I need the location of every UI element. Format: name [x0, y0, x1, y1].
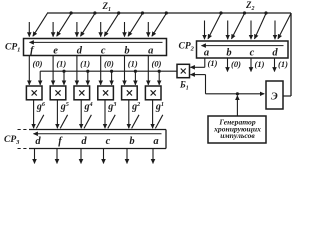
slash mark input CP3 cell 6: [155, 115, 162, 129]
wire Z1 diagonal tap into CP1 cell 5: [128, 11, 144, 36]
label state (1) cell a: [208, 58, 218, 68]
wire CP1 cell 5 output down: [124, 56, 126, 85]
svg-text:b: b: [129, 136, 134, 147]
node timing junction: [236, 92, 239, 95]
wire CP2 cell a output to multiplier B1: [191, 58, 205, 67]
label CP1: [5, 42, 20, 53]
svg-text:d: d: [81, 136, 87, 147]
multiplier B1 box: [177, 64, 190, 77]
slash mark input CP3 cell 5: [132, 115, 139, 129]
label coefficient g2: [131, 101, 140, 113]
multiplier X4 box: [98, 86, 114, 100]
svg-text:d: d: [35, 136, 41, 147]
svg-text:a: a: [204, 48, 209, 59]
wire strobe arrow into CP1 cell 2: [52, 22, 54, 37]
label CP2 cell d: [272, 48, 278, 59]
wire CP3 cell 2 output: [56, 149, 58, 164]
slash mark input CP3 cell 3: [84, 115, 91, 129]
wire element E output: [283, 95, 291, 97]
wire Z2 diagonal tap into CP2 cell 4: [278, 13, 291, 38]
label state (0) cell 1: [33, 58, 43, 68]
label Z1: [102, 1, 112, 13]
label CP1 cell c: [101, 45, 106, 56]
wire CP3 cell 4 output: [103, 149, 105, 164]
label CP2: [179, 41, 195, 52]
label state (1) cell 2: [56, 58, 66, 68]
label CP3 cell d: [81, 136, 87, 147]
wire Z1 diagonal tap into CP1 cell 2: [57, 11, 73, 36]
wire CP3 cell 1 output: [34, 149, 36, 164]
label state (1) cell c: [255, 59, 265, 69]
wire Z2 diagonal tap into CP2 cell 3: [255, 11, 268, 38]
wire CP1 cell 1 output down: [28, 56, 30, 85]
wire strobe arrow into CP2 cell 4: [274, 21, 276, 40]
svg-text:a: a: [148, 45, 153, 56]
label state (0) cell 4: [104, 58, 114, 68]
wire CP1 cell 2 output down: [52, 56, 54, 85]
wire product bus tap 1: [39, 71, 41, 85]
label Z2: [245, 0, 255, 12]
wire timing into multiplier B1: [191, 75, 206, 94]
svg-text:d: d: [272, 48, 278, 59]
generator box: [208, 116, 266, 143]
wire multiplier X2 output into CP3: [56, 100, 58, 128]
multiplier X6 box: [145, 86, 161, 100]
wire multiplier X3 output into CP3: [80, 100, 82, 128]
label coefficient g6: [36, 101, 46, 113]
svg-text:Э: Э: [271, 91, 278, 102]
wire strobe arrow into CP2 cell 2: [227, 21, 229, 40]
wire timing bus to element E: [206, 93, 265, 95]
wire generator output up: [236, 96, 238, 116]
label state (1) cell d: [278, 59, 288, 69]
wire strobe arrow into CP1 cell 3: [76, 22, 78, 37]
wire CP1 cell 4 output down: [100, 56, 102, 85]
wire CP2 cell d output: [274, 58, 276, 72]
label coefficient g1: [155, 101, 164, 113]
slash mark input CP3 cell 2: [60, 115, 67, 129]
wire CP2 cell c output: [250, 58, 252, 72]
register CP3 bottom edge: [29, 148, 166, 150]
wire product bus tap 5: [134, 70, 137, 85]
slash mark input CP3 cell 4: [108, 115, 115, 129]
svg-text:(1): (1): [278, 59, 288, 69]
label CP2 cell b: [226, 48, 231, 59]
wire CP2 cell b output: [227, 58, 229, 72]
svg-text:(1): (1): [128, 58, 138, 68]
svg-text:импульсов: импульсов: [220, 131, 255, 140]
label B1: [179, 79, 189, 91]
wire CP3 cell 6 output: [152, 149, 154, 164]
wire strobe arrow into CP2 cell 3: [250, 21, 252, 40]
label CP3 cell b: [129, 136, 134, 147]
register CP3 dashed continuation top: [18, 129, 28, 131]
label CP3 cell a: [153, 136, 158, 147]
label CP3: [4, 135, 20, 146]
register CP3 top edge: [29, 129, 166, 131]
register CP3 dashed continuation bottom: [18, 148, 28, 150]
svg-text:(0): (0): [231, 59, 241, 69]
svg-text:e: e: [53, 45, 58, 56]
register CP1 shift arrow: [30, 41, 163, 43]
label CP2 cell c: [250, 48, 255, 59]
multiplier X2 box: [50, 86, 66, 100]
register CP1 box: [24, 39, 167, 56]
label generator text: [213, 117, 261, 140]
wire top bus Z1/Z2: [47, 12, 291, 14]
label CP3 cell f: [58, 136, 63, 147]
label coefficient g5: [60, 101, 69, 113]
svg-text:c: c: [101, 45, 106, 56]
svg-text:c: c: [106, 136, 111, 147]
wire CP1 cell 6 output down: [147, 56, 149, 85]
wire strobe arrow into CP1 cell 1: [28, 22, 30, 37]
wire CP1 cell 3 output down: [76, 56, 78, 85]
element E box: [266, 81, 283, 109]
wire multiplier X5 output into CP3: [128, 100, 130, 128]
multiplier X5 box: [122, 86, 138, 100]
label CP1 cell b: [124, 45, 129, 56]
label CP2 cell a: [204, 48, 209, 59]
label state (1) cell 3: [80, 58, 90, 68]
wire strobe arrow into CP2 cell 1: [204, 21, 206, 40]
wire CP3 cell 5 output: [126, 149, 128, 164]
wire Z1 diagonal tap into CP1 cell 4: [104, 11, 120, 36]
wire Z1 diagonal tap into CP1 cell 3: [81, 11, 97, 36]
svg-text:b: b: [226, 48, 231, 59]
label state (0) cell 6: [152, 58, 162, 68]
multiplier X3 box: [74, 86, 90, 100]
label CP3 cell c: [106, 136, 111, 147]
svg-text:d: d: [77, 45, 83, 56]
wire product bus tap 6: [158, 70, 161, 85]
register CP3 shift arrow: [34, 133, 162, 135]
register CP2 box: [197, 41, 289, 58]
wire Z2 diagonal tap into CP2 cell 2: [232, 11, 247, 38]
svg-text:(0): (0): [152, 58, 162, 68]
svg-text:(0): (0): [33, 58, 43, 68]
wire product bus tap 2: [62, 70, 65, 85]
wire product bus tap 3: [86, 70, 89, 85]
slash mark input CP3 cell 1: [36, 115, 43, 129]
label state (1) cell 5: [128, 58, 138, 68]
wire multiplier X6 output into CP3: [152, 100, 154, 128]
label CP3 cell d: [35, 136, 41, 147]
label CP1 cell f: [30, 45, 35, 56]
wire strobe arrow into CP1 cell 5: [124, 22, 126, 37]
wire multiplier X4 output into CP3: [104, 100, 106, 128]
label coefficient g4: [84, 101, 93, 113]
label coefficient g3: [107, 101, 116, 113]
wire feedback right vertical: [290, 13, 292, 96]
svg-text:b: b: [124, 45, 129, 56]
wire multiplier X1 output into CP3: [33, 100, 35, 128]
label E: [271, 91, 278, 102]
wire CP3 cell 3 output: [80, 149, 82, 164]
label CP1 cell a: [148, 45, 153, 56]
wire strobe arrow into CP1 cell 4: [100, 22, 102, 37]
wire Z1 diagonal tap into CP1 cell 6: [152, 11, 168, 36]
register CP2 shift arrow: [202, 45, 284, 47]
label CP1 cell d: [77, 45, 83, 56]
svg-text:(1): (1): [208, 58, 218, 68]
label CP1 cell e: [53, 45, 58, 56]
wire Z1 diagonal tap into CP1 cell 1: [33, 13, 47, 36]
label state (0) cell b: [231, 59, 241, 69]
svg-text:(1): (1): [255, 59, 265, 69]
wire product bus: [40, 70, 177, 72]
svg-text:c: c: [250, 48, 255, 59]
wire strobe arrow into CP1 cell 6: [147, 22, 149, 37]
svg-text:(0): (0): [104, 58, 114, 68]
svg-text:(1): (1): [56, 58, 66, 68]
svg-text:(1): (1): [80, 58, 90, 68]
register CP3 right edge: [165, 130, 167, 149]
svg-text:a: a: [153, 136, 158, 147]
wire product bus tap 4: [110, 70, 113, 85]
wire Z2 diagonal tap into CP2 cell 1: [208, 11, 223, 38]
multiplier X1 box: [26, 86, 42, 100]
